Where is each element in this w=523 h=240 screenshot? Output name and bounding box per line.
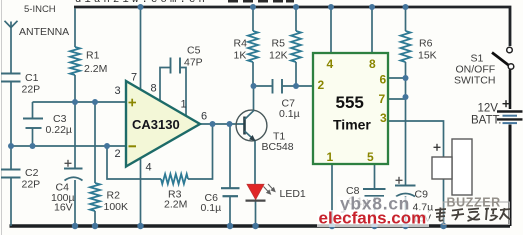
svg-text:5-INCH: 5-INCH [24,4,56,15]
svg-text:C9: C9 [415,189,429,201]
svg-text:555: 555 [336,93,364,112]
svg-text:R1: R1 [86,50,100,62]
svg-text:3: 3 [115,85,121,97]
svg-text:6: 6 [201,111,207,123]
svg-text:elecfans.com: elecfans.com [319,209,427,228]
svg-text:15K: 15K [418,50,437,62]
svg-text:12V: 12V [478,103,499,115]
svg-text:2: 2 [115,148,121,160]
svg-text:ANTENNA: ANTENNA [19,26,69,38]
svg-text:0.1µ: 0.1µ [201,202,222,214]
svg-text:SWITCH: SWITCH [454,75,495,87]
svg-text:BC548: BC548 [262,141,294,153]
svg-text:CA3130: CA3130 [132,117,180,132]
svg-text:8: 8 [151,83,157,95]
svg-text:6: 6 [380,73,387,87]
svg-text:7: 7 [379,92,386,106]
svg-text:2.2M: 2.2M [84,63,107,75]
svg-text:1: 1 [181,99,187,111]
svg-text:16V: 16V [54,202,73,214]
svg-text:22P: 22P [22,179,41,191]
svg-text:0.22µ: 0.22µ [46,124,73,136]
svg-text:Timer: Timer [333,117,371,133]
svg-text:BUZZER: BUZZER [447,196,501,210]
svg-text:R2: R2 [107,190,121,202]
svg-text:1K: 1K [234,50,247,62]
svg-text:2.2M: 2.2M [164,199,187,211]
svg-text:4: 4 [327,57,334,71]
svg-text:3: 3 [380,111,387,125]
svg-text:C2: C2 [25,167,39,179]
svg-text:8: 8 [369,57,376,71]
svg-text:2: 2 [318,78,325,92]
svg-text:C1: C1 [25,72,39,84]
svg-text:R6: R6 [419,38,433,50]
svg-text:1: 1 [327,150,334,164]
svg-text:5: 5 [367,150,374,164]
svg-text:R4: R4 [234,38,248,50]
svg-text:C5: C5 [187,45,201,57]
svg-text:LED1: LED1 [280,188,306,200]
svg-text:0.1µ: 0.1µ [279,108,300,120]
svg-text:47P: 47P [184,57,203,69]
svg-text:7: 7 [131,72,137,84]
svg-text:12K: 12K [269,50,288,62]
svg-text:100K: 100K [104,201,129,213]
svg-text:R5: R5 [272,38,286,50]
svg-text:BATT.: BATT. [471,115,501,127]
svg-text:4: 4 [146,162,152,174]
svg-text:22P: 22P [22,84,41,96]
